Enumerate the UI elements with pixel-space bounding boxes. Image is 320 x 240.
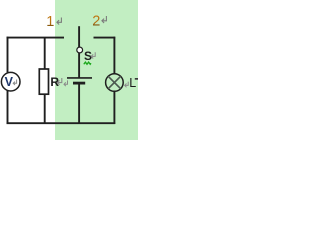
wire: bottom horizontal bbox=[7, 122, 116, 124]
battery short plate (-) bbox=[73, 82, 85, 85]
lamp X cross bbox=[108, 76, 120, 88]
wire: resistor branch bottom bbox=[44, 94, 46, 124]
svg-text:2: 2 bbox=[92, 13, 100, 29]
svg-text:V: V bbox=[5, 75, 14, 89]
white page background bbox=[0, 0, 138, 140]
wire: right vertical down to lamp bbox=[113, 37, 115, 74]
battery long plate (+) bbox=[67, 77, 92, 79]
wire: resistor branch top bbox=[44, 38, 46, 69]
wire: left vertical lower (source V to bottom wire) bbox=[7, 91, 9, 124]
power source V1 circle bbox=[1, 72, 20, 91]
wire: battery to bottom wire bbox=[78, 84, 80, 124]
paragraph mark after R bbox=[57, 78, 61, 85]
wire: top-left horizontal (from battery branch left end) bbox=[7, 37, 65, 39]
wire: left vertical upper (top wire to source V) bbox=[7, 37, 9, 73]
switch S pivot circle bbox=[77, 47, 83, 53]
paragraph mark after 2 bbox=[102, 16, 107, 23]
wire: switch to battery bbox=[78, 53, 80, 78]
green highlighted region bbox=[55, 0, 138, 140]
resistor R bbox=[39, 69, 48, 94]
svg-text:1: 1 bbox=[46, 14, 54, 30]
paragraph mark after 1 bbox=[57, 18, 62, 25]
wire: lamp to bottom wire bbox=[113, 91, 115, 124]
paragraph mark after S bbox=[91, 52, 95, 58]
paragraph mark after V bbox=[13, 80, 16, 86]
stray paragraph mark before L bbox=[125, 82, 129, 88]
clipped glyph fragment at right edge bbox=[135, 78, 138, 80]
wire: middle branch top (terminal 1 stub down to switch) bbox=[78, 26, 80, 47]
stray paragraph mark left of battery bbox=[64, 80, 68, 86]
wire: top-right horizontal from terminal 2 bbox=[94, 37, 116, 39]
lamp L circle bbox=[106, 74, 124, 92]
spellcheck squiggle under S bbox=[84, 62, 91, 64]
